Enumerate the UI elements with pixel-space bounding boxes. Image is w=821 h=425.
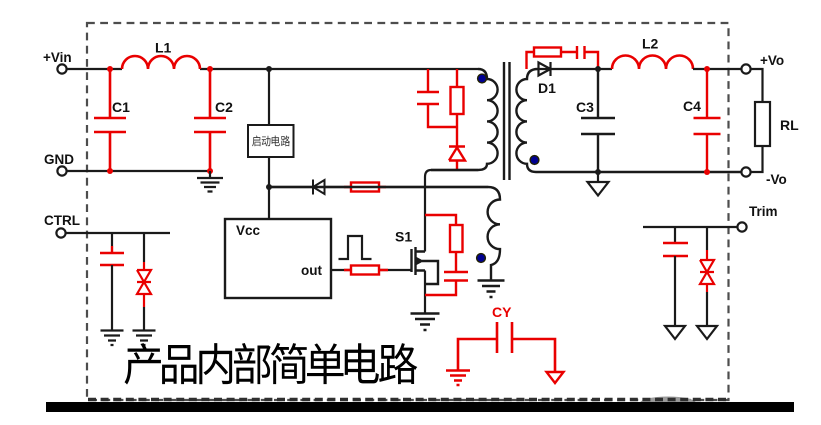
- svg-text:S1: S1: [395, 229, 412, 245]
- svg-text:C4: C4: [683, 98, 701, 114]
- ground below C8: [101, 331, 124, 346]
- node Vcc junction: [266, 184, 272, 190]
- svg-text:+Vin: +Vin: [43, 50, 72, 65]
- IC U1 Vcc controller box: [225, 219, 331, 298]
- terminal +Vo: [741, 64, 750, 73]
- RCD clamp capacitor C5: [417, 69, 457, 127]
- wire Trim: [643, 226, 737, 228]
- ground below Z1: [133, 331, 156, 346]
- wire +Vin to L1: [67, 68, 122, 70]
- terminal Trim: [737, 222, 746, 231]
- svg-text:D1: D1: [538, 80, 556, 96]
- RCD clamp diode D3: [449, 147, 465, 171]
- chassis ground below C3: [588, 172, 609, 196]
- terminal CTRL: [56, 228, 65, 237]
- ground below aux winding: [478, 281, 505, 298]
- resistor R5 (gate): [344, 269, 388, 271]
- terminal GND: [57, 166, 66, 175]
- node C4 top: [704, 66, 710, 72]
- svg-text:C2: C2: [215, 99, 233, 115]
- capacitor C9 (Trim): [674, 227, 676, 243]
- svg-text:Vcc: Vcc: [236, 223, 261, 238]
- capacitor CY: [458, 322, 555, 372]
- svg-text:C3: C3: [576, 99, 594, 115]
- node C3 top: [595, 66, 601, 72]
- node C2 top: [207, 66, 213, 72]
- node C2 bottom: [207, 168, 213, 174]
- capacitor C2: [194, 69, 226, 171]
- inductor L1: [122, 56, 200, 69]
- svg-text:L1: L1: [155, 40, 172, 56]
- caption: product internal simple circuit: [125, 343, 418, 385]
- capacitor C4: [694, 69, 721, 172]
- svg-text:GND: GND: [44, 152, 74, 167]
- node C1 top: [107, 66, 113, 72]
- chassis ground below CY right: [547, 372, 564, 383]
- startup circuit box U2: [248, 125, 294, 157]
- RCD clamp resistor R1: [456, 69, 458, 146]
- polarity dot secondary: [530, 156, 539, 165]
- wire RL to -Vo: [751, 146, 763, 172]
- D1 snubber capacitor C6: [577, 46, 598, 69]
- capacitor C3: [581, 69, 615, 172]
- node C3 bottom: [595, 169, 601, 175]
- chassis ground below Z2: [697, 326, 717, 339]
- inductor L2: [612, 56, 693, 70]
- terminal -Vo: [741, 167, 750, 176]
- transistor Q1 MOSFET S1: [412, 247, 439, 284]
- snubber resistor R6 across S1: [425, 215, 456, 225]
- wire +Vo to RL: [751, 69, 763, 102]
- diode D1: [538, 62, 612, 76]
- chassis ground below C9: [665, 326, 685, 339]
- snubber capacitor C7 across S1: [425, 252, 468, 295]
- capacitor C8 (CTRL): [111, 233, 113, 246]
- svg-text:CY: CY: [492, 304, 512, 320]
- terminal +Vin: [57, 64, 66, 73]
- TVS diode Z1 (CTRL): [143, 233, 145, 262]
- svg-text:RL: RL: [780, 117, 799, 133]
- transformer T1 core: [504, 62, 510, 180]
- polarity dot primary: [478, 74, 487, 83]
- ground below C2: [197, 171, 223, 192]
- transformer T1 primary winding: [431, 69, 498, 170]
- node C4 bottom: [704, 169, 710, 175]
- wire startup vertical: [268, 69, 270, 219]
- svg-text:+Vo: +Vo: [760, 53, 784, 68]
- svg-text:C1: C1: [112, 99, 130, 115]
- aux winding T1b: [269, 187, 500, 280]
- wire L1 to transformer primary top: [200, 68, 478, 70]
- wire Vcc supply line: [269, 186, 488, 188]
- capacitor C1: [94, 69, 126, 171]
- ground below CY left: [446, 371, 470, 386]
- pulse waveform symbol: [339, 236, 372, 259]
- svg-text:Trim: Trim: [749, 204, 778, 219]
- svg-text:L2: L2: [642, 36, 659, 52]
- wire L2 to +Vo: [693, 68, 742, 70]
- wire S1 source: [424, 271, 426, 314]
- ground below S1 source: [411, 314, 440, 331]
- wire S1 drain: [425, 170, 478, 252]
- dashed frame border: [87, 23, 729, 400]
- resistor R4 (Vcc feed): [344, 186, 386, 188]
- gray logo blob behind bottom bar: [640, 397, 696, 403]
- wire out to gate: [331, 269, 412, 271]
- svg-text:out: out: [301, 263, 322, 278]
- polarity dot aux: [477, 254, 486, 263]
- svg-text:-Vo: -Vo: [766, 172, 787, 187]
- label qidong dianlu (startup circuit): [252, 135, 290, 146]
- D1 snubber resistor R2: [527, 52, 578, 69]
- bottom black bar: [88, 398, 728, 401]
- node C1 bottom: [107, 168, 113, 174]
- wire GND line: [67, 170, 210, 172]
- transformer T1 secondary winding: [516, 69, 741, 172]
- TVS diode Z2 (Trim): [706, 227, 708, 250]
- svg-text:CTRL: CTRL: [44, 213, 80, 228]
- resistor RL: [755, 102, 770, 146]
- node startup top: [266, 66, 272, 72]
- diode D2 (Vcc feed): [313, 180, 325, 195]
- wire CTRL: [66, 232, 170, 234]
